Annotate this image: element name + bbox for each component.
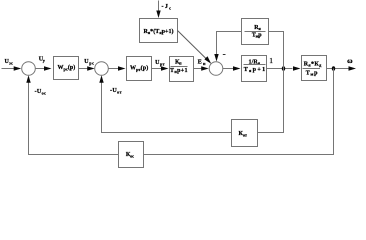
svg-text:-Uос: -Uос (35, 89, 46, 96)
svg-text:Rя*Кд: Rя*Кд (304, 62, 322, 68)
regulator Wpc(p) (54, 57, 79, 80)
wire summer3 to armature block (223, 68, 233, 70)
wire summer2 to Wpt (108, 68, 118, 70)
motor block Rya*Kd/Tmp (302, 56, 327, 81)
svg-text:1: 1 (269, 56, 273, 65)
svg-text:Uу: Uу (39, 57, 46, 64)
svg-text:Кос: Кос (126, 152, 134, 159)
junction node after motor block (332, 66, 335, 71)
converter Kp/(Tpp+1) (170, 57, 194, 82)
svg-text:-Uот: -Uот (110, 88, 122, 95)
wire speed feedback down and left (144, 69, 334, 155)
svg-text:Кп: Кп (175, 60, 182, 66)
wire Wpc to summer 2 (79, 68, 88, 70)
wire armature to motor block (267, 68, 293, 70)
summer 2 (95, 62, 109, 76)
summer 1 (22, 62, 36, 76)
wire Kp to summer 3 (194, 68, 202, 70)
svg-text:Uзс: Uзс (5, 59, 14, 65)
disturbance block Rya*(Tyap+1) (140, 19, 178, 43)
emf block Rya/Tmp (242, 19, 269, 45)
wire output (327, 68, 349, 70)
svg-text:Тпр+1: Тпр+1 (170, 68, 188, 74)
wire summer1 to Wpc (35, 68, 44, 70)
svg-text:Uрс: Uрс (84, 59, 94, 66)
svg-text:Rя: Rя (254, 25, 261, 31)
svg-text:-Jс: -Jс (162, 4, 172, 11)
wire emf block to summer 3 (217, 32, 242, 55)
wire current feedback to summer 2 (102, 83, 232, 133)
summer 3 (209, 62, 223, 76)
svg-text:Тмр: Тмр (252, 33, 262, 39)
wire junction to emf block input (269, 32, 284, 69)
wire disturbance input (158, 1, 160, 12)
svg-text:Тмр: Тмр (306, 71, 318, 77)
wire current feedback down and left (258, 69, 284, 133)
wire diagonal disturbance to summer 3 (178, 31, 209, 61)
minus sign at summer 3 top input (223, 54, 226, 56)
current sensor Kot (232, 120, 258, 147)
svg-text:Тяр+1: Тяр+1 (244, 67, 265, 73)
svg-text:Uрт: Uрт (155, 60, 165, 67)
wire input to summer 1 (2, 68, 15, 70)
wire speed feedback to summer 1 (29, 83, 119, 155)
armature 1/Rya/(Tyap+1) (242, 56, 267, 82)
svg-text:ω: ω (347, 56, 353, 65)
junction node after armature (282, 66, 285, 71)
svg-text:Кот: Кот (239, 131, 247, 138)
regulator Wpt(p) (127, 57, 152, 81)
speed sensor Kos (119, 142, 144, 168)
wire Wpt to Kp block (152, 68, 162, 70)
